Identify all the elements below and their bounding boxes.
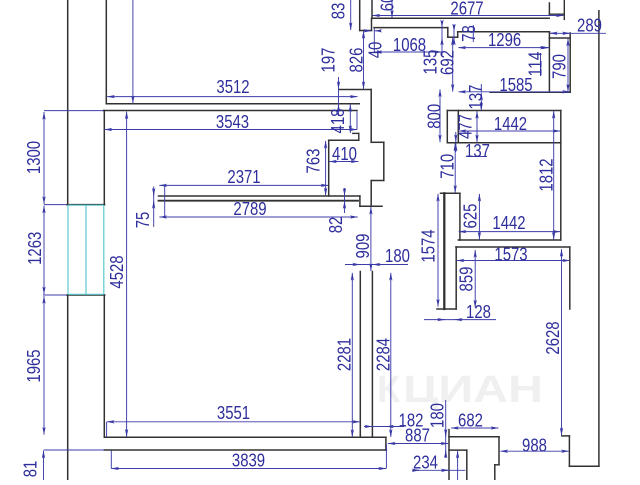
svg-text:2284: 2284 [374, 338, 394, 371]
arrow 128 right [455, 319, 462, 321]
ext 135 riser [441, 21, 443, 56]
underline 137h [469, 156, 487, 158]
svg-text:137: 137 [466, 85, 486, 110]
wall shaft step h [353, 132, 359, 134]
dim 1965 line [43, 296, 45, 435]
wall br-step top [449, 436, 499, 438]
ext 1300 top [44, 110, 104, 112]
ext 1300 bottom [44, 204, 67, 206]
dim 477 line [476, 111, 478, 142]
wall 1442room bottom [458, 239, 561, 241]
arrow 40 right [375, 30, 382, 32]
wall balcony left [568, 436, 570, 466]
ext 3839 left [110, 451, 112, 469]
svg-text:40: 40 [365, 42, 385, 59]
svg-text:ЦИАН: ЦИАН [403, 369, 543, 411]
dim 1573 line [457, 260, 570, 262]
wall 2371 face1 [159, 195, 360, 197]
svg-text:75: 75 [133, 212, 153, 229]
dim 3512 line [107, 96, 357, 98]
wall br right [498, 437, 500, 465]
svg-text:790: 790 [550, 54, 570, 79]
svg-text:710: 710 [438, 154, 458, 179]
wall shaft bump right [383, 142, 385, 180]
dim 137shaft line [480, 93, 482, 110]
ext 289 overrun [550, 32, 606, 34]
wall top-divider left [359, 0, 361, 31]
svg-text:682: 682 [458, 410, 483, 430]
arrow 75 upper [153, 189, 155, 196]
svg-text:1573: 1573 [494, 245, 527, 265]
dim 625 line [478, 194, 480, 240]
dim 763 line [325, 141, 327, 196]
underline 114 [540, 53, 542, 76]
svg-text:1574: 1574 [418, 229, 438, 262]
ext 128 line [424, 319, 496, 321]
svg-text:82: 82 [326, 217, 346, 234]
wall 1442room top [447, 142, 561, 144]
arrow 180b lower [445, 450, 447, 457]
dim 887 line [388, 443, 448, 445]
wall shaft ledge [340, 89, 372, 91]
svg-text:625: 625 [461, 204, 481, 229]
dim 1300 line [43, 112, 45, 204]
svg-text:2371: 2371 [227, 167, 260, 187]
dim 800 line [439, 89, 441, 142]
wall 1573 top [456, 246, 570, 248]
wall br-step left [448, 430, 450, 480]
wall 410-box top [329, 139, 359, 141]
dim 1068 line [375, 51, 443, 53]
wall top-divider step [360, 30, 372, 32]
dim stub cut [457, 451, 459, 480]
ext 2371 left [164, 185, 166, 217]
wall left-inner top [105, 0, 107, 104]
ext 82 riser [344, 188, 346, 213]
svg-text:60: 60 [378, 0, 398, 11]
window pane left [67, 205, 69, 294]
dim 3839 line [111, 468, 386, 470]
wall br-step face2 [449, 449, 467, 451]
svg-text:763: 763 [304, 149, 324, 174]
dim 710 line [454, 143, 456, 192]
dim ext 3512-upper cut [132, 0, 134, 103]
wall bottom face2 [104, 449, 386, 451]
svg-text:3512: 3512 [216, 77, 249, 97]
wall left-outer lower [67, 295, 69, 480]
wall 1296 bottom [490, 91, 570, 93]
arrow 40 left [365, 30, 372, 32]
dim 2677 line [373, 15, 564, 17]
window bottom rail [68, 293, 104, 295]
arrow 135 upper [441, 21, 443, 27]
wall balcony bottom [569, 465, 599, 467]
svg-text:692: 692 [438, 50, 458, 75]
underline 78 [472, 25, 474, 42]
wall top-left face2 [104, 110, 358, 112]
ext 78 riser [453, 25, 455, 44]
dim 2281 line [351, 273, 353, 437]
arrow 78 upper [453, 25, 455, 31]
dim 909 line [370, 207, 372, 271]
wall top nook v [563, 0, 565, 19]
dim 60 cut [391, 0, 393, 18]
dim 2371 line [159, 184, 328, 186]
svg-text:2677: 2677 [450, 0, 483, 19]
arrow 137h up [455, 143, 457, 152]
wall br jog h [495, 464, 499, 466]
dim 988 line [500, 450, 568, 452]
dim 418 line [349, 104, 351, 132]
svg-text:83: 83 [328, 3, 348, 20]
wall 410-box left [328, 140, 330, 196]
svg-text:180: 180 [427, 403, 447, 428]
svg-text:859: 859 [457, 267, 477, 292]
svg-text:988: 988 [522, 435, 547, 455]
wall mid thick [443, 193, 445, 309]
wall 1296 right lower [548, 32, 550, 92]
svg-text:887: 887 [405, 425, 430, 445]
dim 692 line [452, 38, 454, 92]
arrow 289 left [550, 32, 557, 34]
wall 2371 face2 [159, 200, 359, 202]
dim 859 line [474, 250, 476, 307]
wall 1442room right [560, 111, 562, 241]
ext 180t line [345, 264, 408, 266]
wall 1573 left low [455, 247, 457, 309]
arrow 197 upper [338, 82, 340, 89]
dim 1574 line [437, 194, 439, 307]
dim 2284 line [390, 273, 392, 437]
dim 1585 line [458, 91, 570, 93]
svg-text:4528: 4528 [107, 255, 127, 288]
window pane mid [85, 205, 87, 294]
ext 1965 top [43, 294, 67, 296]
svg-text:197: 197 [319, 48, 339, 73]
wall br stub right [466, 450, 468, 480]
dim 81 cut [43, 451, 45, 480]
svg-text:418: 418 [328, 109, 348, 134]
arrow 135 lower [441, 38, 443, 44]
wall 1442room jamb L [446, 111, 448, 143]
wall corridor bottom [447, 110, 561, 112]
underline 137shaft [480, 84, 482, 92]
svg-text:180: 180 [385, 246, 410, 266]
ext 197 riser [338, 77, 340, 116]
svg-text:114: 114 [525, 52, 545, 77]
ext 75 riser [153, 187, 155, 228]
arrow 82 upper [344, 190, 346, 196]
svg-text:1263: 1263 [25, 232, 45, 265]
wall 625 left [459, 193, 461, 240]
arrow 128 left [438, 319, 445, 321]
arrow 82 lower [344, 201, 346, 207]
wall shaft bottom [360, 205, 382, 207]
dim 410 line [329, 161, 358, 163]
wall hall face [374, 27, 448, 29]
ext 40 riser [373, 28, 375, 52]
arrow 137h down [455, 132, 457, 142]
wall shaft right1 [370, 90, 372, 143]
ext 3551 left [106, 422, 108, 437]
dim 1812 line [553, 111, 555, 239]
arrow 180t left [352, 264, 360, 266]
svg-text:3839: 3839 [232, 450, 265, 470]
svg-text:800: 800 [425, 104, 445, 129]
svg-text:909: 909 [353, 234, 373, 259]
wall hall face2 [448, 36, 458, 38]
dim 1442a line [459, 130, 561, 132]
wall shaft step v [358, 133, 360, 140]
wall 790 right [569, 33, 571, 92]
wall bottom face1 [104, 436, 386, 438]
window pane right [103, 205, 105, 294]
arrow 75 lower [153, 201, 155, 208]
window top rail [68, 204, 104, 206]
dim 826 line [363, 31, 365, 89]
svg-text:78: 78 [459, 25, 479, 42]
dim 682 line [451, 427, 498, 429]
wall 1296 left step [457, 32, 459, 37]
arrow 114 [540, 47, 548, 49]
ext 180b riser [445, 400, 447, 458]
svg-text:1812: 1812 [537, 158, 557, 191]
dim 790 line [567, 39, 569, 92]
wall left-inner mid [103, 111, 105, 205]
svg-text:2628: 2628 [543, 321, 563, 354]
svg-text:289: 289 [577, 15, 602, 35]
svg-text:1965: 1965 [24, 349, 44, 382]
arrow 182 right [386, 426, 393, 428]
arrow 180t right [373, 264, 380, 266]
wall window head [67, 204, 105, 206]
wall top-right face [372, 17, 549, 19]
wall 625 stub top [441, 192, 460, 194]
svg-text:2789: 2789 [233, 199, 266, 219]
ext 182 line [364, 426, 404, 428]
wall hall step v [447, 28, 449, 38]
svg-text:826: 826 [346, 48, 366, 73]
arrow 180b upper [445, 430, 447, 437]
wall left-inner low [103, 295, 105, 437]
wall left-outer upper [67, 0, 69, 205]
svg-text:477: 477 [456, 114, 476, 139]
arrow 234 right [413, 469, 420, 471]
svg-text:234: 234 [413, 452, 438, 472]
svg-text:3551: 3551 [217, 403, 250, 423]
dim 4528 line [126, 112, 128, 437]
svg-text:1296: 1296 [488, 30, 521, 50]
wall bottom step [385, 437, 387, 450]
svg-text:1585: 1585 [499, 75, 532, 95]
wall br jog v [494, 465, 496, 480]
wall top-left face1 [106, 103, 359, 105]
svg-text:137: 137 [465, 141, 490, 161]
arrow 234 left [442, 469, 449, 471]
svg-text:128: 128 [466, 302, 491, 322]
svg-text:1300: 1300 [24, 141, 44, 174]
wall interior left [359, 272, 361, 438]
wall shaft bump bot [371, 180, 384, 182]
svg-text:81: 81 [21, 461, 41, 478]
ext 234 line [412, 469, 465, 471]
wall 1573 bottom [437, 308, 456, 310]
svg-text:410: 410 [332, 144, 357, 164]
wall 2371 end step [359, 196, 361, 206]
dim 1263 line [43, 206, 45, 295]
dim 2789 line [159, 216, 357, 218]
wall top-divider step v [371, 18, 373, 30]
wall shaft right2 [370, 181, 372, 207]
wall 1573 right [569, 247, 571, 309]
arrow 197 lower [338, 104, 340, 111]
wall window sill [67, 294, 105, 296]
ext 81 wall [44, 449, 105, 451]
arrow 78 lower [453, 38, 455, 44]
ext 887-3839 [385, 445, 387, 469]
dim 1442b line [459, 231, 561, 233]
wall 790 top [549, 37, 570, 39]
wall shaft bump top [371, 141, 384, 143]
svg-text:1442: 1442 [492, 213, 525, 233]
dim 83x cut [350, 0, 352, 30]
dim 1296 line [458, 47, 549, 49]
wall 1296 top [458, 31, 550, 33]
wall right-outer [598, 11, 600, 467]
svg-text:2281: 2281 [334, 338, 354, 371]
dim 3543 line [105, 129, 358, 131]
wall 1296 right upper [548, 3, 550, 14]
wall interior right [371, 272, 373, 438]
dim 2628 line [561, 249, 563, 435]
svg-text:К: К [377, 369, 401, 411]
wall top-divider right [371, 0, 373, 18]
arrow 182 left [365, 426, 372, 428]
wall 1442room jamb R [457, 111, 459, 143]
ext 3543 right [356, 111, 358, 129]
svg-text:3543: 3543 [216, 112, 249, 132]
arrow 289 right [563, 32, 570, 34]
dim 3551 line [107, 421, 360, 423]
wall top nook h [549, 13, 564, 15]
wall balcony notch [562, 435, 570, 437]
svg-text:1442: 1442 [494, 114, 527, 134]
